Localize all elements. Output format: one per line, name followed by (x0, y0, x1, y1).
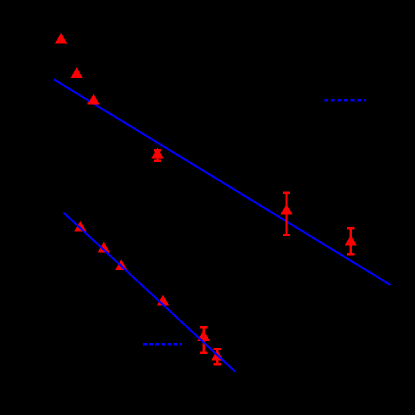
data point L6 (filled red triangle) (211, 350, 223, 361)
lower series error bar for point L5 (200, 327, 207, 353)
legend key: dashed blue line (upper right) (324, 99, 365, 102)
lower fit line (solid blue, drawn over markers) (64, 213, 236, 372)
data point L5 (filled red triangle) (197, 330, 209, 341)
data point U2 (filled red triangle) (71, 67, 83, 78)
data point L4 (filled red triangle) (157, 295, 169, 306)
lower series error bar for point L6 (214, 349, 221, 364)
data point L2 (filled red triangle) (98, 242, 110, 253)
legend key: dashed blue line (lower middle) (143, 343, 182, 346)
data point U5 (filled red triangle) (280, 204, 292, 215)
upper fit line (solid blue) (54, 79, 391, 285)
data point U6 (filled red triangle) (345, 235, 357, 246)
data point U1 (filled red triangle) (55, 33, 67, 44)
data point L3 (filled red triangle) (115, 259, 127, 270)
upper series error bar for point U3 (92, 98, 94, 104)
data point L1 (filled red triangle) (74, 221, 86, 232)
upper series error bar for point U6 (347, 228, 354, 254)
upper series error bar for point U4 (154, 150, 161, 161)
data point U3 (filled red triangle) (87, 94, 99, 105)
upper series error bar for point U5 (283, 193, 290, 235)
error bar bottom cap of U3 (drawn over marker) (87, 102, 97, 104)
data point U4 (filled red triangle) (151, 148, 163, 159)
